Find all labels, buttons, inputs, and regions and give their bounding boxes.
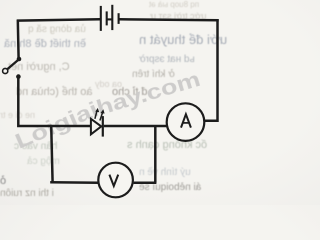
voltmeter V: [98, 163, 133, 198]
switch K (open): [3, 57, 22, 79]
wire LED row right of diode to ammeter: [104, 125, 169, 128]
ammeter A: [167, 103, 205, 141]
node: branch junction to voltmeter (left): [51, 125, 52, 183]
battery B1 cell1 short plate: [106, 11, 108, 25]
wire top-right horizontal: [119, 18, 219, 21]
switch lever: [7, 60, 19, 70]
battery B1 cell2 long plate: [111, 5, 113, 30]
switch open terminal circle: [3, 68, 8, 73]
LED cathode bar: [102, 116, 104, 137]
battery B1 cell1 long plate: [100, 6, 102, 31]
ghost bleed-through text rows: [28, 24, 86, 35]
switch lower contact dot: [16, 74, 21, 79]
wire LED row left of diode: [50, 125, 90, 128]
LED D1: [91, 108, 105, 137]
LED emission arrow 2: [100, 111, 103, 120]
wire left rail upper segment: [17, 20, 20, 59]
battery B1 cell2 short plate: [118, 13, 120, 24]
wire left rail lower segment + turn right: [18, 77, 52, 126]
switch pivot dot: [17, 57, 22, 62]
wire voltmeter right to branch: [134, 181, 157, 184]
LED triangle (anode): [91, 119, 101, 135]
battery B1 inter-cell link: [107, 18, 113, 20]
wire right rail down to ammeter stub: [205, 19, 218, 121]
node: branch junction (right) up to LED row: [154, 125, 157, 183]
LED emission arrow 1: [95, 110, 97, 119]
wire bottom to voltmeter left: [50, 181, 98, 184]
wire top-left horizontal: [17, 19, 100, 20]
